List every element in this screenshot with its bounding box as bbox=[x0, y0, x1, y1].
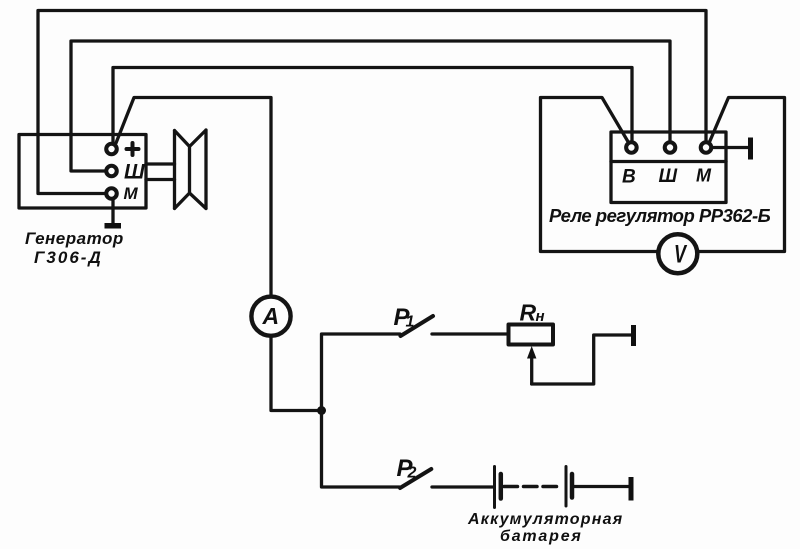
generator terminal + bbox=[106, 144, 117, 155]
svg-text:Ш: Ш bbox=[124, 161, 145, 184]
wire: voltmeter to relay М terminal (loop right) bbox=[700, 98, 785, 252]
resistor Rн body bbox=[509, 325, 554, 345]
svg-text:н: н bbox=[536, 308, 545, 325]
svg-text:V: V bbox=[674, 240, 688, 269]
svg-text:Ш: Ш bbox=[659, 166, 678, 187]
ammeter A bbox=[251, 297, 290, 336]
battery cell 1 bbox=[495, 467, 501, 508]
switch P2 blade bbox=[400, 469, 431, 488]
battery cell 2 bbox=[566, 467, 572, 507]
wire: switch P1 to resistor Rн bbox=[432, 332, 509, 335]
svg-text:1: 1 bbox=[406, 314, 415, 331]
svg-text:Генератор: Генератор bbox=[25, 229, 124, 248]
svg-text:Реле регулятор РР362-Б: Реле регулятор РР362-Б bbox=[549, 205, 771, 226]
wire: generator Ш to relay Ш terminal (middle top loop) bbox=[71, 41, 670, 171]
label Аккумуляторная батарея bbox=[467, 511, 623, 545]
switch P1 blade bbox=[401, 316, 434, 336]
shaft lines (generator to pulley) bbox=[146, 164, 175, 180]
voltmeter V bbox=[658, 234, 697, 273]
svg-text:2: 2 bbox=[407, 465, 417, 482]
svg-text:М: М bbox=[124, 184, 139, 203]
label Р2 bbox=[397, 455, 417, 482]
wire: battery to terminal bar bbox=[574, 485, 629, 488]
wiper arrow (rheostat) bbox=[527, 346, 536, 384]
wire: switch P2 to battery bbox=[432, 485, 493, 488]
label Р1 bbox=[394, 304, 415, 331]
wire: generator + to ammeter A bbox=[116, 98, 271, 296]
wire: junction down to switch P2 bbox=[322, 411, 400, 488]
load terminal bar bbox=[631, 325, 636, 346]
svg-text:батарея: батарея bbox=[500, 528, 583, 545]
svg-text:М: М bbox=[696, 166, 712, 186]
bolt terminal (relay М to case) bbox=[713, 138, 753, 160]
label + (generator) bbox=[127, 143, 139, 155]
battery-side terminal bar bbox=[629, 477, 634, 501]
wire: wiper to load terminal bbox=[532, 335, 631, 384]
relay terminal М bbox=[701, 142, 712, 153]
wire: generator + to relay В terminal (inner top loop) bbox=[113, 68, 632, 142]
relay terminal strip box bbox=[611, 132, 726, 203]
generator terminal Ш bbox=[106, 166, 117, 177]
generator terminal М bbox=[106, 188, 117, 199]
pulley bbox=[175, 130, 207, 209]
label Rн bbox=[520, 300, 545, 326]
relay terminal В bbox=[626, 142, 637, 153]
svg-text:В: В bbox=[622, 167, 636, 188]
relay terminal Ш bbox=[665, 142, 676, 153]
wire: junction up to switch P1 bbox=[322, 334, 401, 411]
junction node bbox=[317, 406, 326, 415]
wire: relay В terminal to voltmeter (loop left) bbox=[541, 98, 657, 252]
svg-text:R: R bbox=[520, 300, 537, 326]
wire: generator М to relay М terminal (outer top loop) bbox=[38, 11, 706, 194]
wire: ammeter to junction bbox=[271, 338, 322, 411]
generator box bbox=[19, 135, 146, 209]
label Генератор Г306-Д bbox=[25, 229, 124, 267]
ground (generator М to chassis) bbox=[105, 201, 122, 229]
terminal strip divider bbox=[611, 160, 726, 163]
svg-text:A: A bbox=[262, 303, 280, 329]
dashed wire (omitted cells) bbox=[504, 485, 561, 489]
svg-text:Аккумуляторная: Аккумуляторная bbox=[467, 511, 623, 528]
svg-text:Г306-Д: Г306-Д bbox=[34, 248, 103, 267]
